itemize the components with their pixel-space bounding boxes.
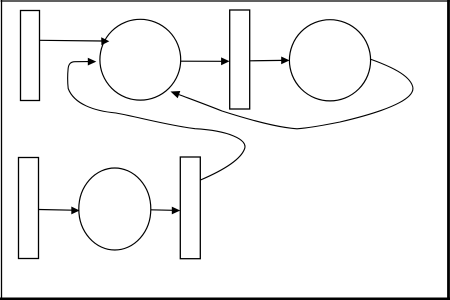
transition T1 [21,11,40,101]
transition T2 [230,10,250,109]
arc P2-P1 (long curved wire from place P2 around to place P1) [171,59,413,129]
arc P1-T2 (wire) [181,57,230,65]
arc T2-P2 (wire) [250,57,290,65]
transition T3 [19,158,39,259]
place P3 [79,168,151,250]
place P1 [100,19,181,100]
arc T1-P1 (wire) [40,37,109,45]
transition T4 [180,157,200,259]
arc T4-P1 (long curved wire from transition T4 around to place P1) [68,58,245,180]
arc T3-P3 (wire) [39,207,80,215]
place P2 [289,20,370,101]
arc P3-T4 (wire) [151,207,181,215]
